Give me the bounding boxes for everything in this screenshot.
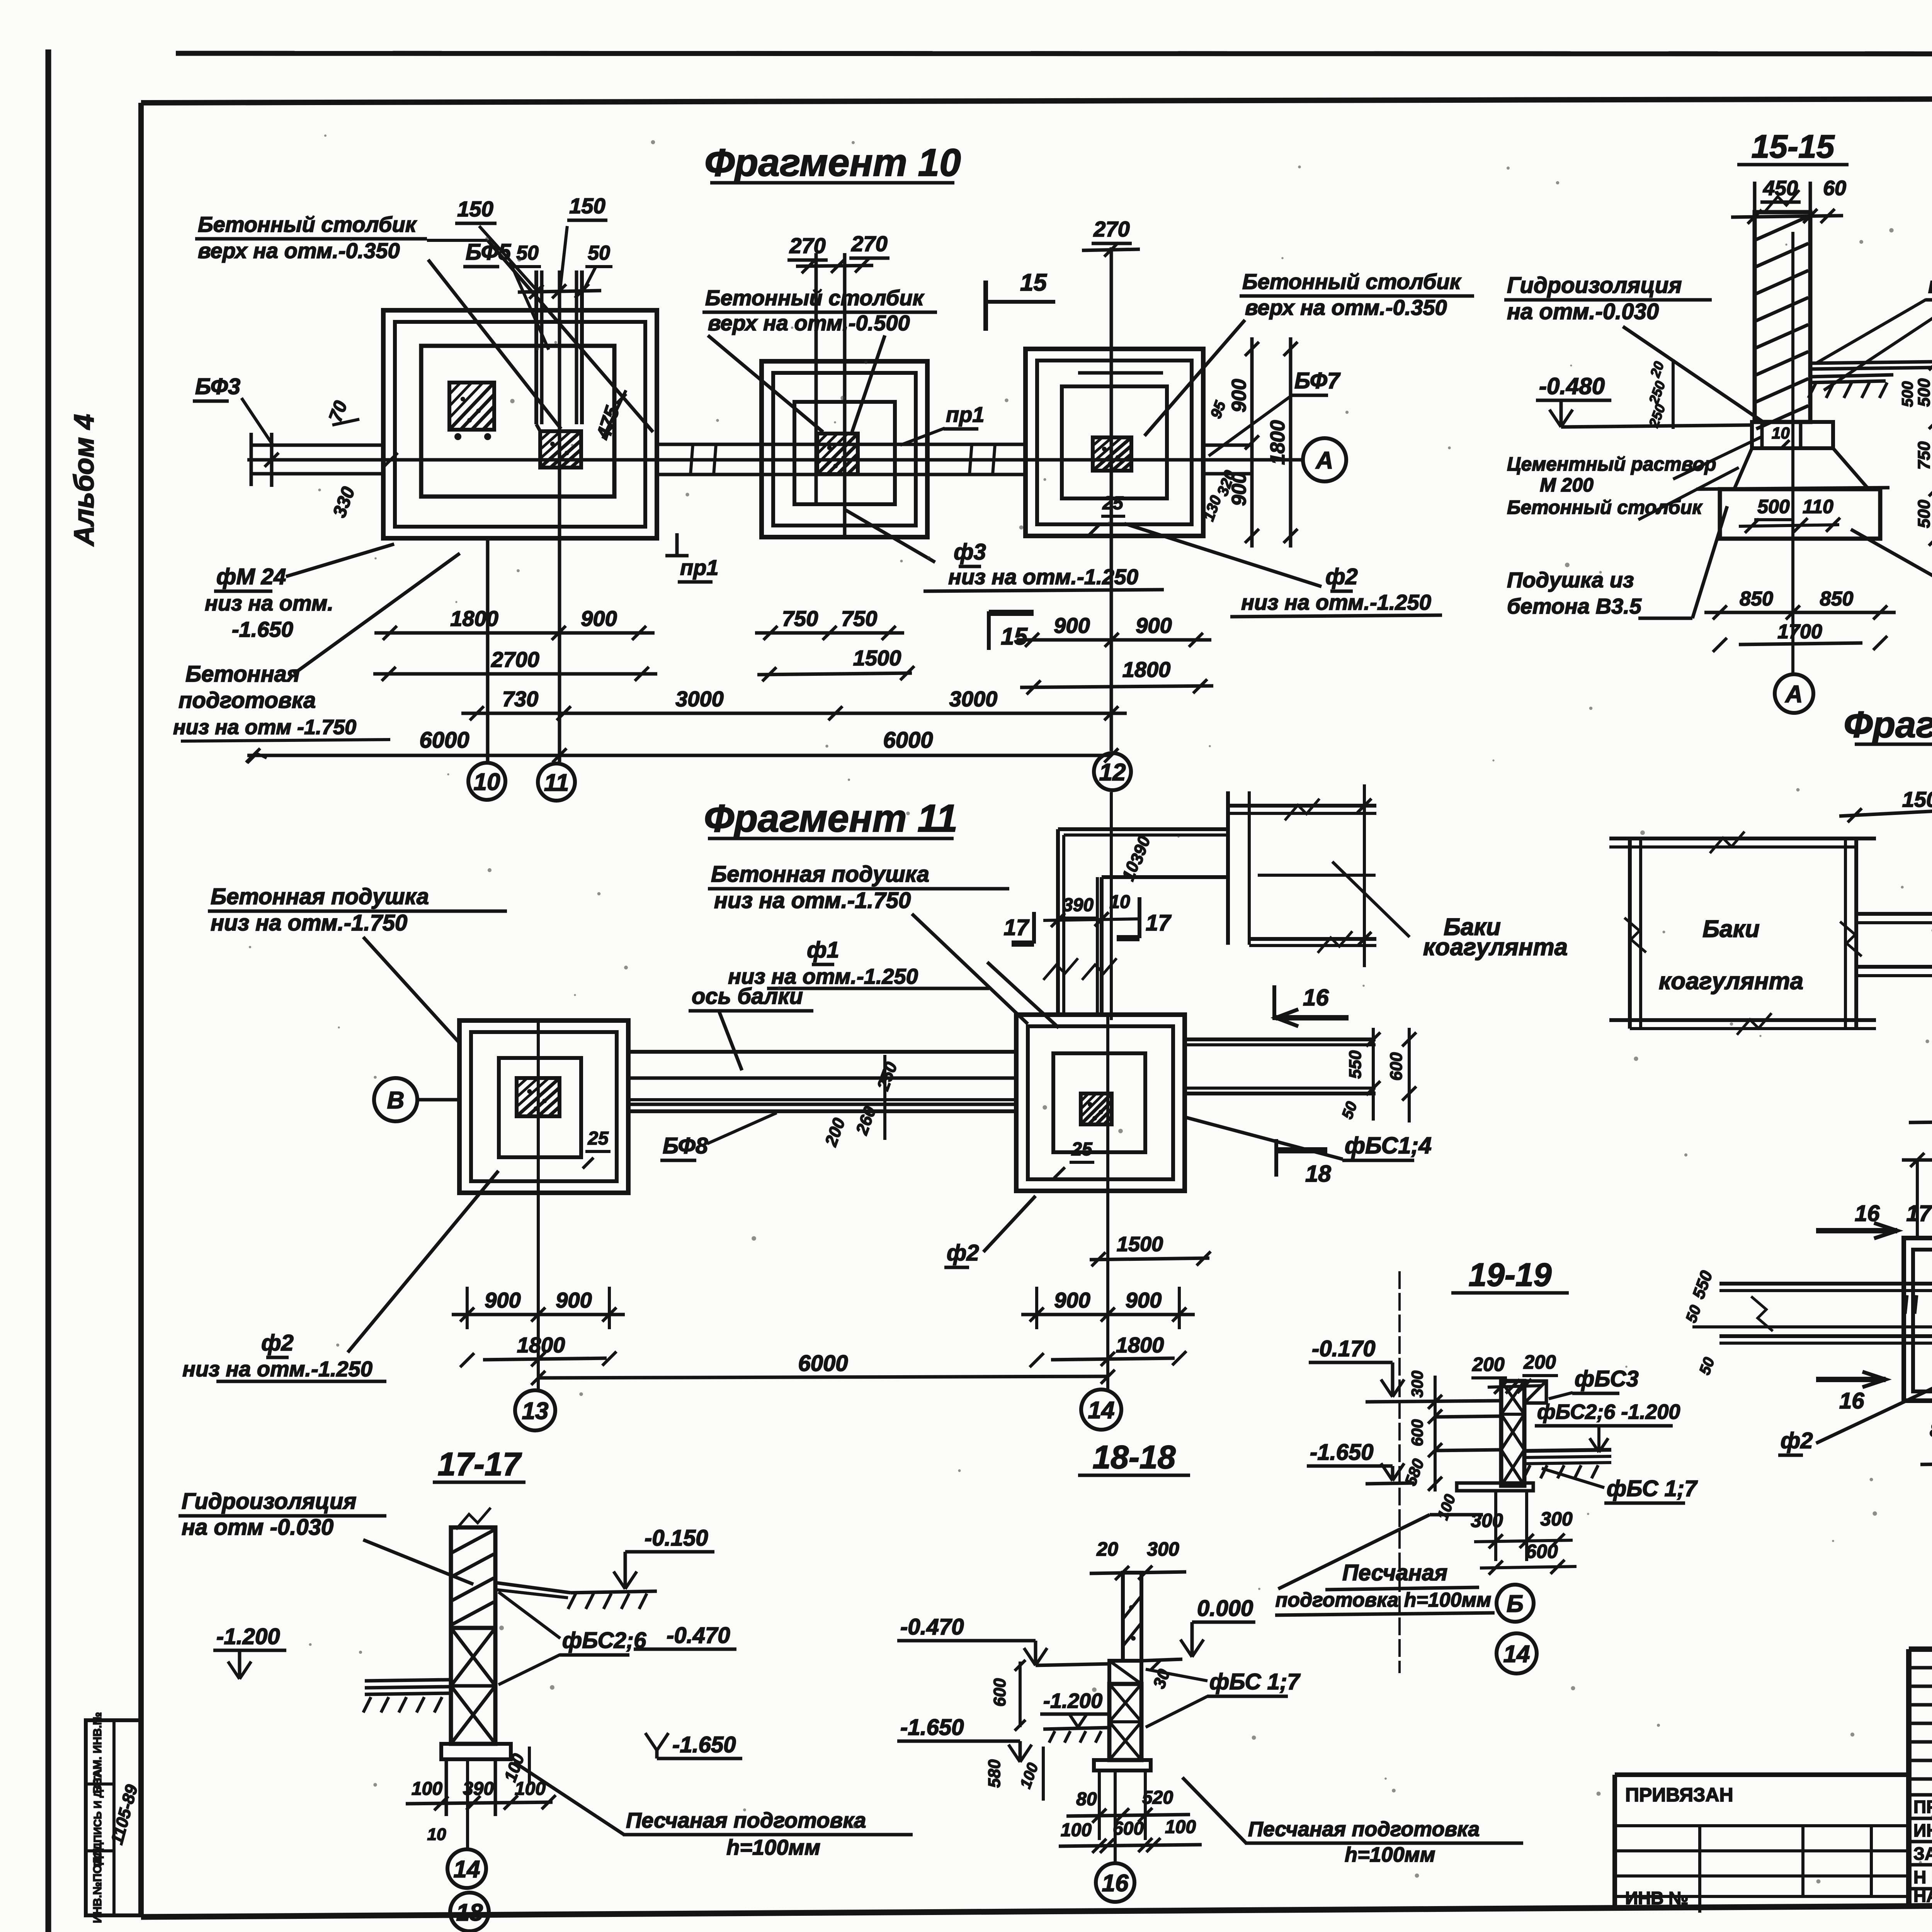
foundation F2 right outer xyxy=(1026,349,1203,536)
svg-text:Песчаная подготовка: Песчаная подготовка xyxy=(1248,1818,1480,1841)
svg-text:Фрагмент 12: Фрагмент 12 xyxy=(1844,704,1932,745)
svg-text:Гидроизоляция: Гидроизоляция xyxy=(182,1489,357,1514)
svg-text:бетона В3.5: бетона В3.5 xyxy=(1507,594,1642,618)
f11 duct top connector xyxy=(1058,827,1228,831)
svg-text:НАЧ. ОТД: НАЧ. ОТД xyxy=(1913,1886,1932,1906)
svg-text:15-15: 15-15 xyxy=(1752,128,1835,165)
svg-text:600: 600 xyxy=(1526,1541,1558,1562)
svg-text:900: 900 xyxy=(581,606,617,631)
dims row3 730 3000 3000 xyxy=(461,712,579,715)
svg-text:100: 100 xyxy=(1165,1817,1196,1837)
svg-text:600: 600 xyxy=(1113,1818,1144,1839)
f11 tank left wall xyxy=(1226,791,1230,945)
svg-text:ось балки: ось балки xyxy=(692,984,803,1009)
svg-text:850: 850 xyxy=(1820,588,1854,610)
axis circle A xyxy=(1303,438,1346,481)
svg-text:25: 25 xyxy=(1071,1139,1093,1160)
18-18 lower column crossed xyxy=(1109,1684,1141,1760)
svg-text:фБС 1;7: фБС 1;7 xyxy=(1607,1476,1698,1501)
f12 tank left wall xyxy=(1628,838,1632,1029)
f12 tank breaks xyxy=(1624,918,1646,952)
f11 channel from tank xyxy=(1056,829,1060,1015)
svg-text:на отм -0.030: на отм -0.030 xyxy=(182,1515,333,1540)
svg-text:6000: 6000 xyxy=(883,728,933,753)
17-17 ground right small xyxy=(496,1583,571,1593)
svg-text:фМ 24: фМ 24 xyxy=(216,564,286,589)
19-19 wall crossed xyxy=(1501,1381,1524,1486)
title block left thin rows xyxy=(1909,1666,1932,1670)
svg-text:15: 15 xyxy=(1001,623,1028,650)
svg-text:низ на отм.-1.750: низ на отм.-1.750 xyxy=(211,910,407,935)
svg-text:10: 10 xyxy=(1109,892,1130,912)
f12 pipes from tank xyxy=(1856,912,1932,916)
slot top dim ticks xyxy=(518,291,601,292)
F3 hatched square xyxy=(817,434,858,474)
svg-text:20: 20 xyxy=(1096,1538,1118,1560)
section mark 15 top xyxy=(983,281,988,331)
svg-text:16: 16 xyxy=(1839,1388,1864,1413)
svg-text:-0.470: -0.470 xyxy=(900,1614,964,1639)
svg-text:1500: 1500 xyxy=(1902,787,1932,811)
svg-text:12: 12 xyxy=(1099,759,1126,786)
axis circle 12 xyxy=(1094,753,1131,790)
svg-text:25: 25 xyxy=(1102,493,1124,514)
svg-text:17: 17 xyxy=(1146,910,1172,935)
svg-text:50: 50 xyxy=(588,242,610,264)
f11 tank axes dash xyxy=(1258,874,1376,877)
svg-text:пр1: пр1 xyxy=(946,402,985,427)
svg-text:Фрагмент 10: Фрагмент 10 xyxy=(704,141,961,184)
svg-text:верх на отм.-0.350: верх на отм.-0.350 xyxy=(198,238,400,263)
scan noise specks xyxy=(238,134,1932,1883)
svg-text:750: 750 xyxy=(1915,441,1932,470)
svg-text:900: 900 xyxy=(1228,379,1250,413)
17-17 wall hatched top xyxy=(451,1527,495,1628)
axis circle 11 xyxy=(538,764,575,801)
svg-text:коагулянта: коагулянта xyxy=(1423,934,1568,961)
f12 tank box bottom line xyxy=(1609,1018,1876,1022)
svg-text:1800: 1800 xyxy=(450,606,498,631)
svg-text:0.000: 0.000 xyxy=(1197,1596,1253,1621)
svg-text:6000: 6000 xyxy=(798,1351,848,1376)
svg-text:730: 730 xyxy=(502,687,538,711)
svg-text:А: А xyxy=(1785,681,1803,707)
19-19 footing plate xyxy=(1457,1483,1533,1491)
svg-text:1800: 1800 xyxy=(517,1333,565,1357)
17-17 wall crossed below xyxy=(451,1628,495,1744)
svg-text:Песчаная подготовка: Песчаная подготовка xyxy=(626,1808,866,1832)
svg-text:10: 10 xyxy=(1772,424,1790,442)
svg-text:110: 110 xyxy=(1803,496,1833,517)
svg-text:13: 13 xyxy=(522,1398,549,1424)
18-18 upper thin column hatched xyxy=(1123,1573,1141,1661)
svg-text:Альбом 4: Альбом 4 xyxy=(69,414,100,546)
svg-text:10: 10 xyxy=(474,769,500,795)
svg-text:-0.470: -0.470 xyxy=(667,1623,730,1648)
f11 beam xyxy=(628,1050,1019,1054)
svg-text:ИНВ.№ПОДЛ.: ИНВ.№ПОДЛ. xyxy=(91,1845,104,1923)
19-19 circle B xyxy=(1497,1585,1534,1622)
19-19 dims 300 300 600 xyxy=(1494,1491,1497,1561)
svg-text:низ на отм -1.750: низ на отм -1.750 xyxy=(173,716,356,739)
svg-text:ф2: ф2 xyxy=(1325,564,1358,589)
f11 dims below right foundation xyxy=(1021,1313,1195,1316)
svg-text:фБС2;6 -1.200: фБС2;6 -1.200 xyxy=(1537,1400,1680,1423)
15-15 footing flare xyxy=(1734,448,1869,489)
svg-text:-1.200: -1.200 xyxy=(1043,1689,1102,1713)
svg-text:-1.650: -1.650 xyxy=(672,1732,736,1757)
svg-text:В: В xyxy=(387,1087,405,1114)
beam lines between foundations xyxy=(657,443,1028,446)
svg-text:БФ3: БФ3 xyxy=(195,374,240,399)
axis circle 10 xyxy=(468,763,505,800)
15-15 wall hatched xyxy=(1755,212,1810,422)
15-15 base slab xyxy=(1720,489,1880,539)
svg-text:300: 300 xyxy=(1471,1510,1503,1531)
svg-text:900: 900 xyxy=(1136,613,1172,638)
F2 hatched sq xyxy=(1093,437,1131,471)
dims row2b 750 750 under F3 xyxy=(755,631,904,635)
18-18 footing legs xyxy=(1098,1770,1101,1840)
f12 tank box top line xyxy=(1609,837,1876,840)
19-19 upper hatch sq xyxy=(1524,1381,1546,1403)
f12 beam from left xyxy=(1719,1282,1932,1286)
axis 10 vertical xyxy=(486,539,490,761)
svg-text:150: 150 xyxy=(457,197,493,221)
svg-text:-1.650: -1.650 xyxy=(1310,1440,1373,1465)
svg-text:подготовка: подготовка xyxy=(179,688,316,713)
svg-text:270: 270 xyxy=(789,233,825,258)
svg-text:100: 100 xyxy=(412,1779,442,1799)
svg-text:600: 600 xyxy=(1408,1419,1426,1446)
17-17 footing xyxy=(441,1744,511,1759)
svg-text:1500: 1500 xyxy=(1117,1233,1163,1256)
svg-text:Бетонный столбик: Бетонный столбик xyxy=(198,212,417,236)
f12 tank right wall xyxy=(1844,838,1847,1029)
f11 dim 6000 xyxy=(538,1376,1108,1378)
svg-text:Б: Б xyxy=(1507,1590,1524,1617)
left margin stamp table xyxy=(86,1720,141,1915)
svg-text:ПРОВЕР: ПРОВЕР xyxy=(1913,1797,1932,1817)
svg-text:500: 500 xyxy=(1915,500,1932,528)
svg-text:80: 80 xyxy=(1076,1789,1097,1810)
svg-text:1800: 1800 xyxy=(1267,420,1289,465)
svg-text:80: 80 xyxy=(1930,1419,1932,1441)
svg-text:Бетонный столбик: Бетонный столбик xyxy=(705,286,925,310)
svg-text:Подушка из: Подушка из xyxy=(1507,568,1634,592)
svg-text:верх на отм.-0.350: верх на отм.-0.350 xyxy=(1245,295,1447,320)
svg-text:ЗАВ ГР.: ЗАВ ГР. xyxy=(1913,1844,1932,1864)
svg-text:ф1: ф1 xyxy=(807,937,839,963)
svg-text:Н КОНТР: Н КОНТР xyxy=(1913,1867,1932,1887)
svg-text:550: 550 xyxy=(1346,1050,1365,1079)
15-15 column lower part xyxy=(1760,422,1764,448)
svg-text:коагулянта: коагулянта xyxy=(1659,968,1803,995)
svg-text:450: 450 xyxy=(1763,177,1798,200)
attachment table cols xyxy=(1698,1826,1701,1913)
svg-text:Бетонная подушка: Бетонная подушка xyxy=(211,884,429,909)
f12 beam joint ticks xyxy=(1905,1295,1907,1314)
svg-text:10: 10 xyxy=(427,1825,446,1844)
leader concrete post xyxy=(427,239,488,242)
f11 right hatched sq xyxy=(1081,1094,1112,1124)
f11 section 16 mark lower wait18 xyxy=(1274,1139,1278,1177)
svg-text:ф3: ф3 xyxy=(954,539,986,565)
f11 tank top lines xyxy=(1228,804,1376,808)
svg-text:3000: 3000 xyxy=(675,687,724,711)
svg-text:25: 25 xyxy=(587,1128,609,1149)
15-15 ground right xyxy=(1810,375,1893,377)
svg-text:270: 270 xyxy=(851,231,887,256)
19-19 section axis dashed xyxy=(1398,1267,1401,1673)
svg-text:Бетонный столбик: Бетонный столбик xyxy=(1242,269,1462,294)
f11 axis circle 14 xyxy=(1081,1389,1121,1430)
svg-text:фБС3: фБС3 xyxy=(1575,1366,1639,1391)
f11 section 16 mark upper xyxy=(1276,1015,1349,1020)
svg-text:верх на отм.-0.500: верх на отм.-0.500 xyxy=(708,311,910,335)
17-17 floor left xyxy=(365,1680,451,1681)
svg-text:Бетонная: Бетонная xyxy=(185,662,300,687)
svg-text:фБС1;4: фБС1;4 xyxy=(1345,1133,1432,1158)
svg-text:11: 11 xyxy=(544,769,569,796)
svg-text:16: 16 xyxy=(1303,985,1329,1010)
svg-text:А: А xyxy=(1315,447,1333,474)
svg-text:пр1: пр1 xyxy=(1928,273,1932,298)
f11 axis circle 13 xyxy=(515,1390,555,1430)
svg-text:18: 18 xyxy=(456,1899,483,1926)
f11 axis verticals down xyxy=(537,1020,540,1389)
svg-text:14: 14 xyxy=(1503,1641,1530,1667)
svg-text:пр1: пр1 xyxy=(680,555,719,580)
svg-text:17: 17 xyxy=(1003,915,1029,940)
svg-text:фБС 1;7: фБС 1;7 xyxy=(1209,1669,1301,1694)
svg-text:ИНВ №: ИНВ № xyxy=(1625,1888,1689,1908)
axis 11b vertical mid foundation xyxy=(843,253,847,537)
svg-text:низ на отм.: низ на отм. xyxy=(205,591,333,615)
svg-text:1500: 1500 xyxy=(853,646,901,670)
small ticks near left axis xyxy=(384,453,398,467)
axis line row A xyxy=(247,458,1303,462)
svg-text:Бетонная подушка: Бетонная подушка xyxy=(711,862,929,887)
dims 900 900 1800 under F2 xyxy=(1017,638,1211,642)
15-15 floor lines right xyxy=(1810,362,1932,363)
svg-text:100: 100 xyxy=(1061,1820,1092,1840)
svg-text:-1.200: -1.200 xyxy=(216,1624,280,1649)
svg-text:200: 200 xyxy=(1523,1351,1556,1373)
axis 12 vertical xyxy=(1110,247,1113,751)
svg-text:1800: 1800 xyxy=(1116,1333,1164,1357)
15-15 column axis circle A xyxy=(1791,232,1794,673)
svg-text:17: 17 xyxy=(1906,1201,1932,1226)
svg-text:14: 14 xyxy=(1088,1397,1115,1423)
f11 dims below left foundation xyxy=(452,1313,625,1316)
17-17 circles 14 18 xyxy=(466,1759,469,1849)
svg-text:М 200: М 200 xyxy=(1540,474,1594,496)
svg-text:-0.170: -0.170 xyxy=(1312,1336,1375,1361)
svg-text:ф2: ф2 xyxy=(261,1330,294,1355)
svg-text:500: 500 xyxy=(1915,378,1932,407)
svg-text:900: 900 xyxy=(556,1288,592,1312)
19-19 circle 14 xyxy=(1497,1633,1537,1673)
19-19 floor slab right xyxy=(1524,1450,1611,1451)
svg-text:18: 18 xyxy=(1305,1161,1331,1187)
svg-text:3000: 3000 xyxy=(949,687,998,711)
svg-text:Песчаная: Песчаная xyxy=(1342,1560,1447,1585)
BF5 slot xyxy=(534,270,538,424)
f11 axis 12 continuation xyxy=(1110,792,1113,1020)
svg-text:-1.650: -1.650 xyxy=(900,1715,964,1740)
svg-text:Гидроизоляция: Гидроизоляция xyxy=(1507,273,1682,298)
svg-text:-0.480: -0.480 xyxy=(1539,373,1605,399)
f11 tank bottom lines xyxy=(1249,937,1376,941)
foundation F2 inner xyxy=(1062,386,1167,498)
svg-text:-1.650: -1.650 xyxy=(232,617,293,641)
axis 11 vertical through slot xyxy=(558,270,561,762)
svg-text:-0.150: -0.150 xyxy=(645,1526,708,1551)
f11 left hatched sq xyxy=(517,1078,560,1116)
svg-text:ф2: ф2 xyxy=(947,1240,979,1265)
svg-text:500: 500 xyxy=(1757,496,1790,517)
svg-text:БФ8: БФ8 xyxy=(663,1133,708,1158)
svg-text:580: 580 xyxy=(985,1759,1004,1788)
17-17 leader hydro xyxy=(363,1540,473,1584)
svg-text:на отм.-0.030: на отм.-0.030 xyxy=(1507,299,1659,324)
svg-text:низ на отм.-1.750: низ на отм.-1.750 xyxy=(714,888,911,913)
foundation FM24 inner xyxy=(421,346,614,497)
left axis end tick xyxy=(270,433,274,487)
svg-text:Баки: Баки xyxy=(1702,916,1760,942)
f11 beam strip right of foundation xyxy=(1185,1037,1376,1041)
foundation FM24 outer xyxy=(383,310,657,538)
svg-text:низ на отм.-1.250: низ на отм.-1.250 xyxy=(182,1357,372,1381)
svg-text:17-17: 17-17 xyxy=(438,1446,522,1482)
svg-text:ПРИВЯЗАН: ПРИВЯЗАН xyxy=(1625,1784,1733,1806)
svg-text:60: 60 xyxy=(1823,177,1846,200)
svg-text:390: 390 xyxy=(1063,895,1094,915)
svg-text:900: 900 xyxy=(1054,1288,1090,1312)
15-15 wall top break xyxy=(1765,190,1799,212)
title block outline xyxy=(1909,1646,1932,1652)
svg-text:6000: 6000 xyxy=(419,728,469,753)
f11 right foundation xyxy=(1016,1015,1185,1191)
svg-text:18-18: 18-18 xyxy=(1093,1439,1176,1475)
svg-text:низ на отм.-1.250: низ на отм.-1.250 xyxy=(1241,590,1431,614)
f12 foundation outer2 xyxy=(1913,1250,1932,1391)
dims below fragment 10 row1 xyxy=(374,631,655,635)
svg-text:300: 300 xyxy=(1408,1371,1426,1398)
19-19 level lines xyxy=(1366,1401,1501,1402)
svg-text:900: 900 xyxy=(1054,613,1090,638)
svg-text:h=100мм: h=100мм xyxy=(1345,1843,1435,1866)
svg-text:h=100мм: h=100мм xyxy=(726,1835,820,1859)
f11 left foundation xyxy=(459,1020,628,1193)
BF5 slot hatched block xyxy=(540,431,581,468)
svg-text:270: 270 xyxy=(1093,217,1129,241)
svg-text:300: 300 xyxy=(1147,1538,1179,1560)
sheet outer border left xyxy=(46,49,51,1932)
svg-text:850: 850 xyxy=(1740,588,1773,610)
15-15 dims 850 850 1700 xyxy=(1704,611,1896,614)
f12 foundation outer xyxy=(1904,1238,1932,1401)
svg-text:600: 600 xyxy=(990,1678,1009,1707)
svg-text:1700: 1700 xyxy=(1777,621,1822,643)
svg-text:Фрагмент 11: Фрагмент 11 xyxy=(704,797,957,840)
foundation F3 inner xyxy=(794,402,895,504)
svg-text:Цементный раствор: Цементный раствор xyxy=(1507,453,1716,475)
inner drawing frame xyxy=(141,97,1932,103)
svg-text:2700: 2700 xyxy=(491,647,539,672)
section mark 15 bottom xyxy=(987,611,991,650)
svg-text:низ на отм.-1.250: низ на отм.-1.250 xyxy=(948,565,1138,589)
dims row2 2700 xyxy=(373,672,657,676)
svg-text:200: 200 xyxy=(1472,1354,1505,1375)
f11 axis circle B xyxy=(417,1098,458,1102)
19-19 left dim chain xyxy=(1434,1376,1437,1492)
svg-text:750: 750 xyxy=(841,606,877,631)
attachment table outline xyxy=(1615,1772,1909,1777)
svg-text:500: 500 xyxy=(1899,381,1916,407)
svg-text:14: 14 xyxy=(454,1856,480,1883)
beam stub left of FM24 xyxy=(251,444,383,447)
svg-text:ИНЖ 1кат: ИНЖ 1кат xyxy=(1913,1820,1932,1840)
svg-text:подготовка h=100мм: подготовка h=100мм xyxy=(1276,1589,1492,1611)
svg-text:900: 900 xyxy=(485,1288,520,1312)
15-15 footing step xyxy=(1752,422,1833,448)
dims row4 6000 6000 xyxy=(247,754,1111,757)
svg-text:150: 150 xyxy=(569,194,605,218)
sheet top band line xyxy=(176,53,1932,54)
beam joint ticks xyxy=(690,444,693,474)
18-18 circle 16 xyxy=(1114,1770,1117,1862)
18-18 footing xyxy=(1094,1760,1151,1770)
svg-text:520: 520 xyxy=(1142,1787,1173,1808)
svg-text:300: 300 xyxy=(1540,1508,1573,1530)
attachment table rows xyxy=(1615,1824,1909,1827)
f11 section 17 marks xyxy=(1032,912,1036,944)
18-18 level line right xyxy=(1141,1659,1182,1661)
svg-text:19-19: 19-19 xyxy=(1469,1257,1552,1293)
svg-text:БФ7: БФ7 xyxy=(1294,368,1341,393)
18-18 step block xyxy=(1109,1661,1141,1684)
right vertical dims of F2 xyxy=(1250,337,1254,548)
FM24 pile cap hatched xyxy=(449,383,494,430)
foundation F3 middle outer xyxy=(762,361,927,537)
svg-text:15: 15 xyxy=(1020,269,1047,296)
F2 dashed inner top xyxy=(1062,385,1167,388)
svg-text:750: 750 xyxy=(782,606,818,631)
svg-text:600: 600 xyxy=(1387,1052,1406,1081)
svg-text:ф2: ф2 xyxy=(1781,1428,1813,1453)
svg-text:900: 900 xyxy=(1126,1288,1162,1312)
svg-text:16: 16 xyxy=(1102,1870,1129,1896)
svg-text:1800: 1800 xyxy=(1122,657,1171,682)
